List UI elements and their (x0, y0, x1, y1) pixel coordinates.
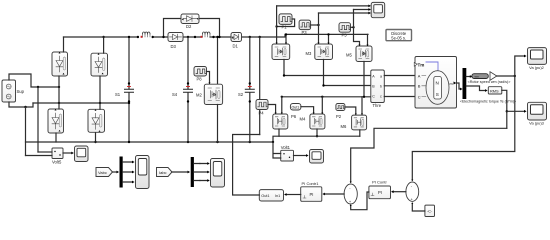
wire M4a drain vertical (281, 97, 283, 113)
wire source bottom (9, 102, 33, 107)
wire Out1 to M4b gate (301, 107, 314, 113)
wire M3 drain drop (328, 34, 330, 43)
svg-text:Out1: Out1 (292, 106, 300, 110)
mosfet M2 (204, 84, 222, 104)
wire M1 drain drop (285, 34, 287, 43)
node S2 top (249, 36, 251, 38)
wire Out1In1 feedback up (233, 135, 260, 196)
wire M2 source to bus (217, 105, 219, 143)
wire PI1 out to Out1In1 (287, 194, 301, 196)
pulse generator P1 (279, 14, 292, 25)
svg-text:c: c (380, 94, 382, 98)
svg-text:S4: S4 (172, 92, 178, 97)
wire x259 vertical (259, 37, 261, 135)
demux 1 (120, 157, 123, 188)
wire torque out (466, 86, 485, 91)
svg-text:D3: D3 (171, 44, 177, 49)
wire T3 bottom drop (55, 133, 57, 142)
inductor L1 (201, 32, 215, 38)
node RMS branch (506, 110, 508, 112)
main top bus (64, 34, 369, 37)
svg-text:m: m (450, 82, 453, 86)
svg-text:M6: M6 (341, 124, 347, 129)
svg-text:P5: P5 (342, 33, 348, 38)
svg-text:wm: wm (475, 75, 480, 79)
wire M4b bottom (316, 129, 318, 136)
svg-text:S: S (436, 92, 439, 97)
svg-text:PI Contr: PI Contr (372, 180, 387, 185)
svg-text:C: C (418, 94, 421, 99)
svg-text:P4: P4 (259, 111, 265, 116)
svg-text:PI Contr1: PI Contr1 (302, 181, 320, 186)
wire scope line3 (319, 12, 369, 14)
thyristor T3 (48, 109, 64, 133)
PI Contr1 block (301, 187, 322, 202)
node right of D3 (187, 36, 189, 38)
wire Volt1 to scope (294, 155, 307, 157)
svg-text:B: B (418, 84, 421, 89)
wire source top to bridge node A (9, 74, 59, 87)
svg-text:-C-: -C- (427, 210, 433, 214)
svg-text:Vabc: Vabc (98, 170, 107, 175)
wire Vabc to demux (113, 171, 118, 173)
node D2 branch right (218, 36, 220, 38)
wire machine m to bus selector (457, 83, 461, 89)
bottom return bus (26, 141, 274, 143)
node P1 gate join (275, 25, 277, 27)
wires Volt1 inputs (273, 142, 281, 158)
wire phase A (284, 60, 370, 76)
wire RMS out down (502, 90, 507, 128)
signal label pill speed (472, 74, 488, 79)
AC source block Sup (2, 80, 16, 102)
node on source bottom wire (24, 106, 26, 108)
gain triangle (490, 72, 497, 81)
node right of D3 b (194, 36, 196, 38)
wire M6 drain vertical (361, 97, 363, 114)
wire M2 drain vertical (217, 37, 219, 84)
scope Vabc (136, 156, 150, 189)
From tag Vabc (96, 168, 113, 177)
node mid bus col2 (99, 102, 101, 104)
scope Va (pu)3 (528, 102, 547, 120)
diode D1 (231, 33, 242, 42)
node x259 top (259, 36, 261, 38)
svg-text:PI: PI (310, 192, 314, 197)
demux 2 (191, 157, 194, 187)
wire P1 out loop (277, 19, 295, 27)
svg-text:RMS: RMS (490, 89, 499, 94)
svg-text:<Rotor speed wm (rad/s)>: <Rotor speed wm (rad/s)> (468, 80, 511, 84)
wire P4 to M4a gate (268, 105, 276, 114)
scope Va (pu)2 (528, 48, 547, 65)
pulse generator P8 (194, 67, 207, 77)
svg-text:D2: D2 (186, 24, 192, 29)
svg-text:P2: P2 (336, 114, 342, 119)
wire gain out (497, 75, 515, 77)
node M2 drain top (216, 36, 218, 38)
svg-text:S2: S2 (238, 92, 244, 97)
powergui Discrete (386, 30, 412, 41)
wire P3 out (311, 24, 319, 26)
wires demux2 to scope (194, 164, 208, 181)
mosfet M4b (310, 114, 325, 129)
node on source top wire (37, 86, 39, 88)
wire PI Contr out to sum1 bottom (351, 192, 369, 210)
svg-text:Va (pu)2: Va (pu)2 (529, 65, 544, 70)
wire speed out (466, 76, 470, 78)
node P3 gate join (317, 24, 319, 26)
mosfet M6 (352, 115, 367, 130)
svg-text:M2: M2 (196, 93, 202, 98)
inductor L3 (137, 32, 154, 38)
sum block speed loop (406, 182, 419, 202)
wire Iabc to demux2 (172, 171, 188, 173)
Volt1 measurement (281, 150, 294, 161)
svg-text:Tm: Tm (418, 62, 425, 67)
wire Volt5 minus in (26, 155, 53, 157)
thyristor T1 (52, 52, 68, 76)
inverter lower bus (273, 136, 360, 142)
wire col1 mid vertical (58, 76, 60, 109)
wire torque feedback (351, 128, 507, 182)
node T2 top (102, 36, 104, 38)
svg-text:M3: M3 (306, 51, 312, 56)
svg-text:P3: P3 (302, 30, 308, 35)
pulse generator P4 (256, 100, 268, 110)
svg-text:M4: M4 (300, 117, 306, 122)
node bus S2 (249, 141, 251, 143)
three-phase block Thre (371, 70, 385, 103)
scope Iabc (211, 159, 225, 188)
mosfet M1 (272, 44, 290, 60)
constant block (425, 205, 435, 216)
wire mid bus y103 (33, 102, 129, 104)
wire sum2 out to PI Contr (394, 191, 406, 193)
node A junction (58, 86, 60, 88)
wire D2 branch (164, 19, 220, 38)
svg-text:In1: In1 (275, 194, 280, 198)
svg-text:b: b (380, 84, 382, 88)
svg-text:A: A (418, 73, 421, 78)
wire M3 gate vertical (318, 13, 320, 43)
wire constant to sum2 (412, 203, 425, 211)
wire M5 drain drop (367, 34, 369, 45)
svg-text:5e-05 s.: 5e-05 s. (391, 36, 406, 41)
svg-text:Sup: Sup (17, 89, 25, 94)
Volt5 measurement (52, 148, 63, 159)
svg-text:P8: P8 (197, 77, 203, 82)
thyristor T2 (91, 53, 108, 76)
diode D2 (181, 14, 199, 24)
wire T4 bottom drop (95, 133, 97, 142)
pulse generator P2 (336, 104, 345, 111)
subsystem Out1 In1 (259, 190, 283, 201)
mosfet M5 (356, 46, 372, 62)
node bus S4 (187, 141, 189, 143)
wire P8 to M2 gate (207, 72, 210, 84)
wire M5 gate vertical (354, 10, 360, 46)
svg-text:Va (pu)3: Va (pu)3 (529, 121, 544, 126)
svg-text:P6: P6 (291, 114, 297, 119)
wire P2 to M6 gate (345, 107, 356, 114)
node P5 gate join (352, 26, 354, 28)
scope Volt5 (75, 146, 89, 162)
wire Volt5 plus in (38, 151, 52, 153)
svg-text:Thre: Thre (373, 103, 382, 108)
From tag Iabc (157, 168, 173, 177)
pulse generator P5 (339, 23, 351, 33)
svg-text:Volt5: Volt5 (52, 160, 62, 165)
svg-text:N: N (436, 81, 439, 86)
wire sum1 out to PI Contr1 (325, 193, 344, 195)
diode D3 (168, 33, 183, 42)
wire Volt5 minus drop (25, 107, 27, 156)
wire col2 mid vertical (99, 76, 101, 109)
scope Volt1 (310, 150, 324, 164)
wire M6 bottom (359, 130, 361, 136)
wire P5 out (351, 26, 354, 28)
wire M1 gate vertical (276, 6, 278, 43)
node D2 branch left (162, 36, 164, 38)
machine block PMSM (414, 57, 456, 109)
wire Volt5 plus drop (37, 87, 39, 152)
wire scope line2 (354, 9, 369, 11)
wire M4b drain vertical (321, 97, 323, 113)
capacitor S1 (125, 36, 134, 143)
wires demux1 to scope (123, 162, 133, 182)
pulse generator P3 (299, 20, 311, 30)
wire T1 top drop (63, 37, 65, 52)
node bus M2 (216, 141, 218, 143)
wire to scope Va3 (507, 110, 525, 112)
svg-text:a: a (380, 74, 382, 78)
sum block torque loop (344, 184, 357, 204)
svg-text:PI: PI (378, 190, 382, 195)
svg-text:Iabc: Iabc (159, 170, 167, 175)
bus selector bar (463, 68, 467, 99)
svg-text:S1: S1 (115, 92, 121, 97)
svg-text:M5: M5 (346, 53, 352, 58)
scope gates (3 input) (368, 2, 384, 17)
wires Thre to machine (384, 76, 414, 97)
RMS block (488, 87, 502, 94)
svg-text:D1: D1 (233, 44, 239, 49)
svg-text:Out1: Out1 (261, 194, 269, 198)
wire scope line1 (277, 5, 369, 7)
wire T2 top drop (103, 37, 105, 53)
svg-text:C: C (372, 94, 375, 98)
wire speed to scope Va2 and feedback (412, 56, 524, 180)
wire phase C (282, 62, 370, 97)
svg-text:<Electromagnetic torque Te (N*: <Electromagnetic torque Te (N*m)> (460, 99, 516, 103)
node T4 bottom bus (94, 141, 96, 143)
capacitor S2 (245, 37, 254, 142)
svg-text:Volt1: Volt1 (281, 145, 291, 150)
wire Volt5 to scope (63, 152, 72, 154)
thyristor T4 (88, 109, 105, 132)
node mid bus col1 (58, 102, 60, 104)
Out1 rounded block (290, 104, 301, 111)
wire phase B (324, 60, 371, 86)
wire M4a bottom (278, 129, 280, 136)
capacitor S4 (184, 37, 193, 142)
PI Contr block (369, 186, 391, 199)
mosfet M3 (315, 44, 333, 60)
mosfet M4a (273, 114, 288, 129)
